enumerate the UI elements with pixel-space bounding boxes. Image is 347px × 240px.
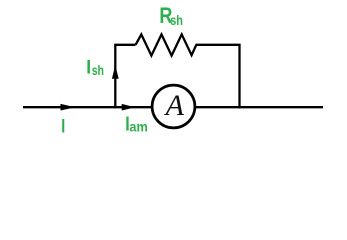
- label I_am: [125, 113, 148, 135]
- label R_sh: [159, 4, 183, 28]
- label I_sh: [86, 56, 104, 79]
- svg-text:I: I: [86, 56, 91, 78]
- svg-text:am: am: [129, 119, 148, 135]
- current arrow I on main wire: [60, 104, 75, 111]
- wire shunt branch up and top-left lead: [115, 45, 135, 109]
- wire resistor right lead and down-drop to main wire: [195, 45, 239, 109]
- current arrow I_sh on shunt branch: [112, 65, 119, 79]
- resistor R_sh zigzag body: [136, 34, 197, 55]
- label I: [61, 116, 65, 137]
- svg-text:A: A: [164, 89, 185, 122]
- current arrow I_am before ammeter: [122, 104, 136, 111]
- ammeter A meter symbol circle: [152, 85, 195, 128]
- svg-text:sh: sh: [92, 63, 104, 79]
- wire main horizontal conductor: [23, 106, 323, 108]
- svg-text:sh: sh: [170, 13, 183, 29]
- svg-text:I: I: [61, 116, 65, 137]
